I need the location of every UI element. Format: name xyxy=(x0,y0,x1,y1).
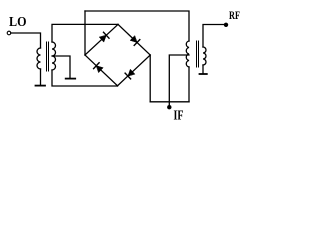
transformer T2 core xyxy=(197,41,199,67)
svg-text:LO: LO xyxy=(9,15,27,30)
svg-text:IF: IF xyxy=(174,109,184,124)
wire T2 primary bottom to ground xyxy=(202,65,204,73)
transformer T1 primary winding xyxy=(37,48,40,69)
ground (T1 primary) xyxy=(36,85,46,87)
top rail to T2 secondary top xyxy=(85,11,189,41)
wire LO terminal to T1 primary top xyxy=(11,33,41,48)
wire T1 primary bottom to ground xyxy=(40,69,42,85)
terminal RF (dot) xyxy=(224,23,228,27)
transformer T1 secondary winding xyxy=(52,42,56,70)
diode D1 (left corner to top corner) xyxy=(85,24,118,55)
ground (T2 primary) xyxy=(200,73,207,75)
wire T1 secondary bottom to diode ring bottom node xyxy=(52,70,118,86)
wire T1 secondary center tap xyxy=(52,56,70,78)
wire T2 primary top to RF terminal xyxy=(203,25,224,48)
terminal LO xyxy=(7,31,11,35)
diode D3 (right corner to bottom corner) xyxy=(118,55,151,86)
wire T2 secondary bottom to bottom rail xyxy=(188,67,190,102)
diode D4 (bottom corner to left corner) xyxy=(85,55,118,86)
wire T2 center tap to IF junction xyxy=(169,55,189,105)
wire diode ring right corner down to bottom rail xyxy=(149,55,151,102)
diode D2 (top corner to right corner) xyxy=(118,24,150,55)
transformer T2 primary winding xyxy=(203,47,206,65)
transformer T2 secondary winding xyxy=(186,41,189,67)
svg-text:RF: RF xyxy=(229,8,240,22)
ground (T1 center tap) xyxy=(66,78,76,80)
terminal IF (junction dot) xyxy=(167,105,171,109)
wire T1 secondary top to diode ring top node xyxy=(52,24,118,42)
transformer T1 core xyxy=(47,42,49,71)
wire diode ring left corner up to top rail xyxy=(84,11,86,55)
bottom rail (IF node) xyxy=(150,101,189,103)
